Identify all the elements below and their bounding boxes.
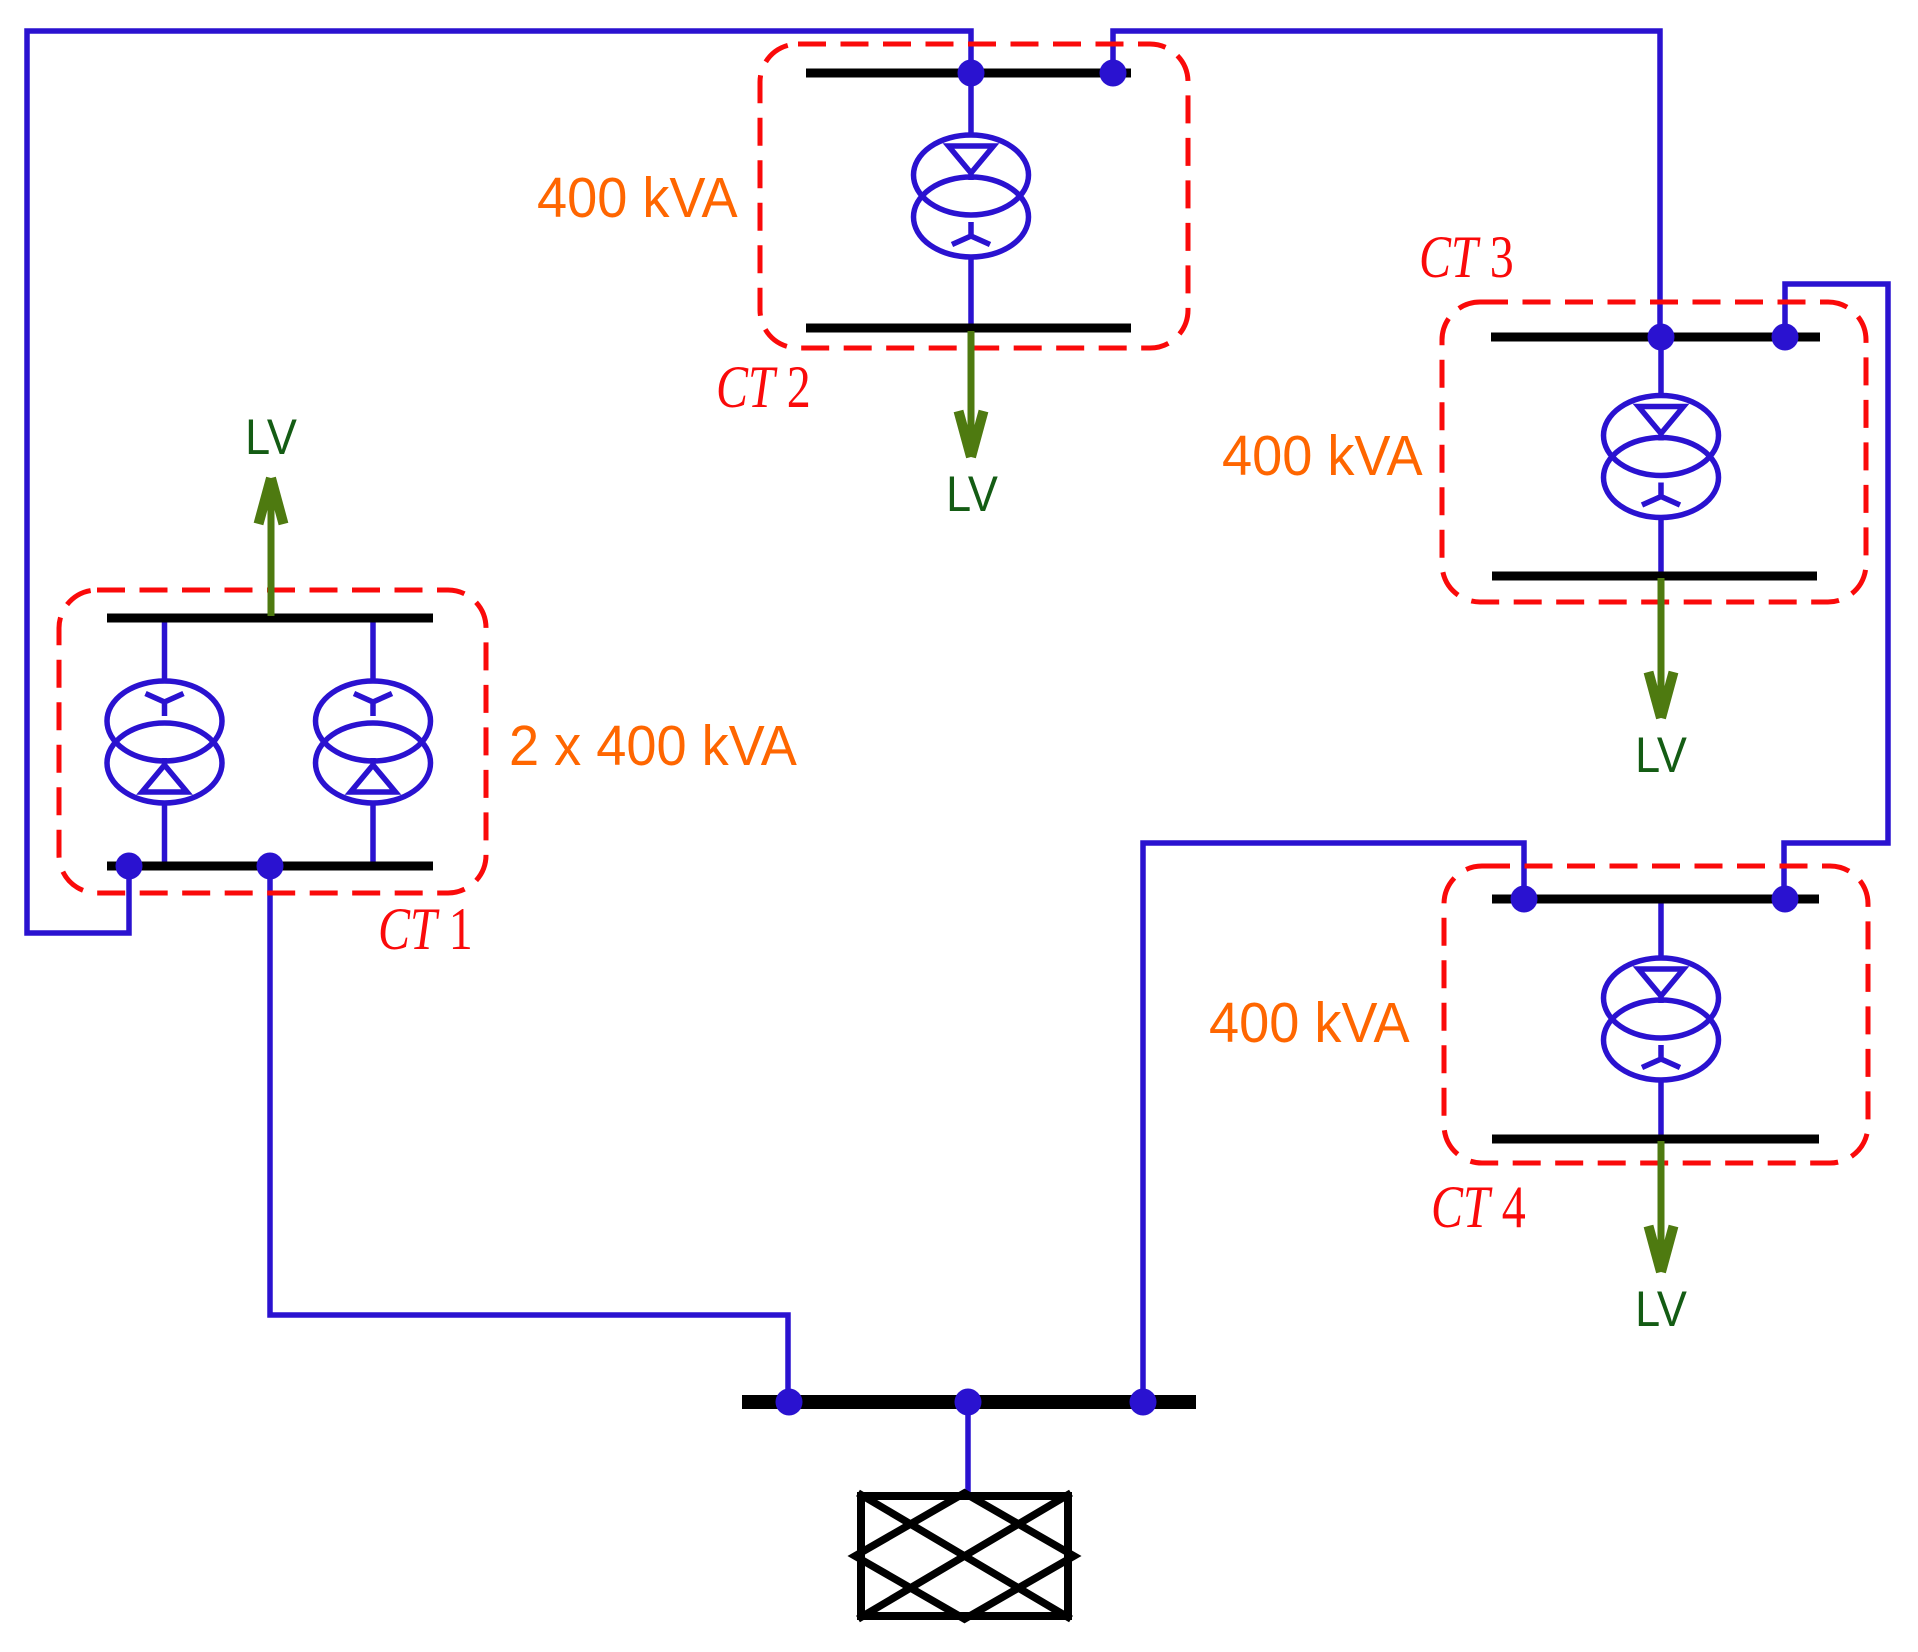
- svg-text:CT 1: CT 1: [378, 896, 473, 962]
- svg-text:CT 2: CT 2: [716, 354, 811, 420]
- svg-text:CT 4: CT 4: [1431, 1174, 1526, 1240]
- svg-text:2 x 400 kVA: 2 x 400 kVA: [509, 714, 797, 778]
- svg-text:400 kVA: 400 kVA: [1222, 424, 1423, 488]
- svg-text:LV: LV: [946, 467, 998, 523]
- svg-text:400 kVA: 400 kVA: [537, 166, 738, 230]
- svg-text:LV: LV: [1635, 1282, 1687, 1338]
- svg-text:400 kVA: 400 kVA: [1209, 991, 1410, 1055]
- svg-text:LV: LV: [1635, 728, 1687, 784]
- svg-text:CT 3: CT 3: [1419, 224, 1514, 290]
- svg-text:LV: LV: [245, 410, 297, 466]
